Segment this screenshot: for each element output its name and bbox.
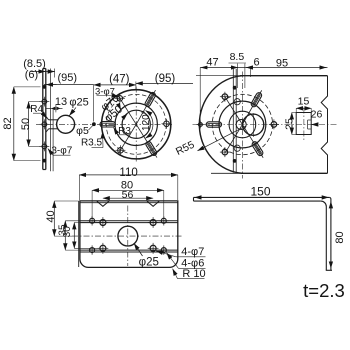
bottom view phi6 holes — [90, 218, 95, 223]
L profile vertical leg — [325, 207, 327, 271]
svg-text:(47): (47) — [109, 74, 130, 86]
dim 80 bottom view — [92, 189, 164, 191]
dim (95) second segment — [136, 82, 193, 84]
dim 80 L profile — [330, 202, 332, 207]
svg-text:R3: R3 — [118, 126, 131, 137]
svg-text:50: 50 — [20, 118, 32, 130]
right detail rect 15x25 — [296, 113, 311, 135]
dim 120 deg arc — [146, 110, 153, 138]
svg-text:R3.5: R3.5 — [81, 137, 103, 148]
svg-text:φ25: φ25 — [69, 97, 88, 109]
bottom view phi7 holes — [100, 220, 106, 226]
right view broken edge with notches — [321, 76, 327, 174]
svg-text:13: 13 — [55, 96, 67, 108]
svg-text:80: 80 — [334, 231, 346, 243]
svg-text:82: 82 — [2, 117, 14, 129]
right view phi7 holes — [271, 122, 277, 128]
bottom view centerlines — [72, 235, 183, 237]
middle view slots — [144, 91, 156, 107]
svg-text:R 10: R 10 — [182, 268, 205, 280]
svg-text:(8.5): (8.5) — [23, 58, 46, 70]
right view top dim chain 47 8.5 6 95 — [200, 67, 327, 69]
L profile corner — [321, 201, 326, 206]
middle view phi70 circle — [115, 103, 157, 145]
right view offset phi25 circle — [243, 114, 264, 135]
svg-text:8.5: 8.5 — [230, 51, 245, 63]
svg-text:26: 26 — [311, 109, 323, 121]
right view radial lines — [242, 90, 261, 124]
svg-text:(95): (95) — [155, 73, 176, 85]
bottom view bend lines — [78, 201, 80, 267]
svg-text:40: 40 — [45, 210, 57, 222]
middle view centerlines — [135, 87, 137, 164]
svg-text:110: 110 — [119, 167, 137, 179]
right view circle r23.4 — [219, 101, 266, 148]
right view inner circle — [229, 111, 256, 138]
svg-text:95: 95 — [276, 57, 288, 69]
right view centerlines — [241, 72, 243, 179]
right view small center circle — [236, 120, 246, 130]
svg-text:47: 47 — [206, 56, 218, 68]
bottom view phi25 hole — [118, 226, 138, 246]
dim 82 left — [13, 87, 15, 161]
svg-text:150: 150 — [250, 184, 270, 198]
middle view radial lines — [136, 90, 155, 124]
dim (47) — [94, 84, 136, 86]
svg-text:4-φ7: 4-φ7 — [181, 246, 204, 258]
dim 30 — [73, 223, 75, 249]
svg-text:φ5: φ5 — [76, 125, 89, 137]
left view neck to boss — [49, 119, 59, 121]
svg-text:30: 30 — [62, 226, 73, 238]
bottom view flange bend lines bottom — [80, 249, 178, 251]
L profile horizontal leg — [194, 196, 330, 198]
svg-text:3-φ7: 3-φ7 — [51, 145, 72, 156]
middle view outer circle — [102, 90, 171, 159]
right view small circles near strip — [234, 99, 240, 105]
svg-text:120°: 120° — [141, 110, 152, 131]
svg-text:6: 6 — [253, 57, 259, 69]
middle view phi50 circle — [122, 110, 150, 138]
dim 15 right detail — [296, 107, 311, 109]
bottom view plate outline — [80, 201, 178, 268]
left view mount plate edge lines — [50, 69, 52, 172]
svg-text:15: 15 — [298, 96, 310, 108]
dim 35 — [64, 221, 66, 250]
middle view 3-phi7 holes — [164, 121, 170, 127]
dim 56 — [103, 197, 153, 199]
dim 25 right detail — [291, 113, 293, 135]
left view phi25 boss circle — [57, 115, 75, 133]
left view plate holes 3-phi7 — [42, 99, 47, 104]
bottom view flange bend lines top — [80, 220, 178, 222]
right view phi5 dots — [233, 86, 237, 90]
svg-text:t=2.3: t=2.3 — [303, 280, 345, 301]
dim 40 — [53, 201, 55, 236]
right view bolt circle dashed — [212, 94, 272, 154]
middle view bolt circle dashed — [106, 94, 166, 154]
right view vertical plate strip — [232, 69, 234, 173]
right view plate outline with R55 end — [196, 75, 241, 77]
dim 110 — [79, 174, 178, 176]
svg-text:(95): (95) — [58, 72, 78, 84]
left view horizontal centerline — [36, 123, 93, 125]
svg-text:φ25: φ25 — [139, 256, 159, 268]
dim 50 left — [28, 102, 30, 147]
dim (95) first segment — [44, 84, 94, 86]
dim 150 — [195, 196, 200, 198]
svg-text:(6): (6) — [25, 69, 38, 81]
right view slots — [250, 92, 262, 108]
svg-text:56: 56 — [122, 189, 134, 201]
left view phi5 dots — [42, 85, 46, 89]
svg-text:25: 25 — [284, 118, 296, 130]
bottom view bend notches — [97, 201, 110, 206]
right view left pin hole — [199, 123, 203, 127]
left side view plate — [42, 69, 44, 170]
label phi5 and junction dot — [92, 122, 96, 126]
